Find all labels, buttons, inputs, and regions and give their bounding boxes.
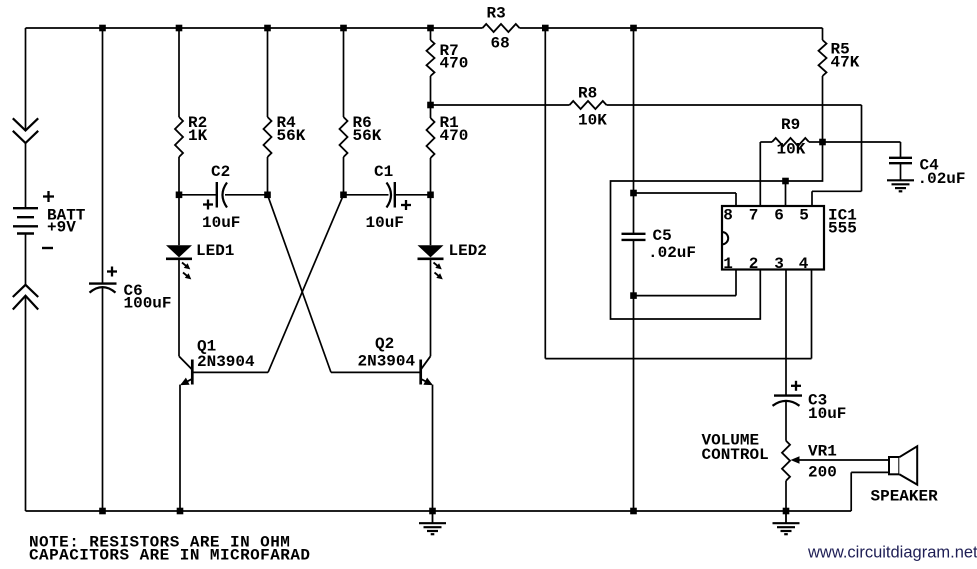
- pin 8 number: [723, 207, 733, 225]
- wire battery column upper: [25, 28, 27, 131]
- wire pin 1 connection: [634, 269, 737, 296]
- wire pin 6 riser: [785, 181, 787, 207]
- svg-text:1K: 1K: [188, 127, 208, 145]
- label Q2: [358, 335, 416, 371]
- capacitor C6: [89, 284, 117, 293]
- capacitor C4: [889, 158, 912, 163]
- capacitor C5: [622, 234, 646, 240]
- svg-text:2N3904: 2N3904: [358, 353, 416, 371]
- LED2 light arrows: [434, 263, 443, 280]
- label battery minus: [42, 247, 53, 249]
- svg-text:10uF: 10uF: [808, 405, 846, 423]
- label C2 value: [202, 214, 240, 232]
- node R6 top: [340, 25, 347, 32]
- pin 2 number: [749, 255, 759, 273]
- node pin 6 junction: [782, 178, 789, 185]
- node C6 ground: [99, 508, 106, 515]
- label R3 value: [487, 5, 510, 53]
- svg-text:CAPACITORS ARE IN MICROFARAD: CAPACITORS ARE IN MICROFARAD: [29, 547, 310, 565]
- node R4 top: [264, 25, 271, 32]
- wire LED2 anode: [430, 195, 432, 245]
- svg-text:10K: 10K: [777, 141, 806, 159]
- svg-text:6: 6: [774, 207, 784, 225]
- label BATT +9V: [47, 206, 86, 236]
- label C2: [211, 163, 230, 181]
- svg-text:5: 5: [799, 207, 809, 225]
- svg-text:2N3904: 2N3904: [197, 353, 255, 371]
- resistor R7: [427, 40, 435, 76]
- wire C6 lower: [102, 288, 104, 511]
- wire LED1 cathode to Q1 collector: [178, 259, 180, 356]
- node R2 top: [176, 25, 183, 32]
- wire cross-coupling C1 left to Q1 base: [268, 195, 344, 373]
- node C1 left / R6: [340, 192, 347, 199]
- wire R5 top lead: [822, 28, 824, 40]
- label IC1 555: [828, 207, 857, 238]
- svg-text:C5: C5: [653, 227, 672, 245]
- wire Q1 base: [192, 371, 268, 373]
- wire R2 top lead: [178, 28, 180, 117]
- wire C2 left lead: [179, 194, 216, 196]
- node VR1 ground: [783, 508, 790, 515]
- svg-text:C1: C1: [374, 163, 393, 181]
- node R9 R5 C4 junction: [819, 139, 826, 146]
- note text: [29, 534, 310, 565]
- node Q2 emitter ground: [429, 508, 436, 515]
- transistor Q1: [179, 356, 192, 385]
- svg-text:56K: 56K: [353, 127, 382, 145]
- wire Q2 base: [331, 371, 421, 373]
- label Q1: [197, 338, 255, 372]
- wire R2 to C2: [178, 157, 180, 195]
- label C3 plus: [791, 381, 801, 391]
- svg-text:47K: 47K: [831, 54, 860, 72]
- svg-text:3: 3: [774, 255, 784, 273]
- label C2 plus: [203, 200, 213, 210]
- svg-text:10uF: 10uF: [366, 214, 404, 232]
- watermark www.circuitdiagram.net: [807, 544, 977, 562]
- wire LED1 anode: [178, 195, 180, 245]
- svg-text:www.circuitdiagram.net: www.circuitdiagram.net: [807, 544, 977, 562]
- svg-text:200: 200: [808, 464, 837, 482]
- node C6 top: [99, 25, 106, 32]
- speaker SPEAKER: [889, 446, 917, 484]
- wire top +9V rail: [26, 27, 823, 29]
- op-amp IC1 555 body: [722, 206, 824, 270]
- wire battery column lower: [25, 296, 27, 511]
- label R9 value: [777, 116, 806, 159]
- wire pin 2 loop: [611, 142, 823, 319]
- wire battery bottom lead: [25, 234, 27, 285]
- wire R8 left: [431, 104, 570, 106]
- svg-text:56K: 56K: [277, 127, 306, 145]
- pin 1 number: [723, 255, 733, 273]
- svg-text:2: 2: [749, 255, 759, 273]
- wire C4 to ground: [900, 163, 902, 180]
- capacitor C3: [773, 396, 803, 406]
- diode LED2: [418, 245, 444, 259]
- pin 4 number: [799, 255, 809, 273]
- node Q1 collector net / C2 left: [176, 192, 183, 199]
- transistor Q2: [421, 356, 433, 385]
- battery feed arrows lower: [13, 285, 38, 310]
- label C3 value: [808, 392, 846, 424]
- wire VR1 to ground: [785, 481, 787, 511]
- wire R6 bottom lead: [343, 157, 345, 195]
- label R2 value: [188, 114, 208, 145]
- wire C2 right lead: [225, 194, 268, 196]
- diode LED1: [166, 245, 192, 259]
- wire R1 top lead: [430, 105, 432, 118]
- wire battery top lead: [25, 143, 27, 208]
- battery BATT +9V: [13, 208, 38, 233]
- label LED1: [196, 242, 234, 260]
- wire C1 right lead: [396, 194, 431, 196]
- node R7 R1 R8 junction: [427, 102, 434, 109]
- label VOLUME CONTROL: [702, 432, 769, 465]
- svg-text:1: 1: [723, 255, 733, 273]
- svg-text:555: 555: [828, 220, 857, 238]
- label SPEAKER: [871, 488, 939, 506]
- svg-text:R3: R3: [487, 5, 506, 23]
- label R6 value: [353, 114, 382, 145]
- wire pin 3 down: [785, 269, 787, 396]
- label VR1 value: [808, 443, 837, 482]
- label C6 value: [124, 282, 172, 313]
- svg-text:10uF: 10uF: [202, 214, 240, 232]
- node R7 top: [427, 25, 434, 32]
- capacitor C2: [217, 182, 227, 208]
- svg-text:Q2: Q2: [375, 335, 394, 353]
- svg-text:+9V: +9V: [47, 219, 76, 237]
- wire C6 upper: [102, 28, 104, 284]
- resistor R5: [819, 40, 827, 76]
- svg-text:R9: R9: [781, 116, 800, 134]
- wire R5 bottom lead: [822, 76, 824, 142]
- svg-text:10K: 10K: [578, 112, 607, 130]
- pin 3 number: [774, 255, 784, 273]
- node pin 8 branch: [630, 190, 637, 197]
- LED1 light arrows: [182, 263, 191, 280]
- node pin 1 branch: [630, 292, 637, 299]
- node Q1 emitter ground: [177, 508, 184, 515]
- resistor R6: [340, 117, 348, 157]
- label C5 value: [648, 227, 696, 262]
- resistor R8: [570, 101, 607, 109]
- svg-text:LED2: LED2: [449, 242, 487, 260]
- svg-text:470: 470: [440, 127, 469, 145]
- ground at VR1: [773, 511, 800, 534]
- node C5 column top: [630, 25, 637, 32]
- svg-text:.02uF: .02uF: [648, 244, 696, 262]
- label R5 value: [831, 41, 860, 72]
- label C1 plus: [401, 200, 411, 210]
- label C1 value: [366, 214, 404, 232]
- label C4 value: [918, 157, 966, 189]
- svg-text:R8: R8: [578, 85, 597, 103]
- wire R9 left lead: [760, 141, 772, 143]
- svg-text:8: 8: [723, 207, 733, 225]
- resistor R2: [175, 117, 183, 157]
- wire C5 column upper: [633, 28, 635, 234]
- wire speaker return to rail: [851, 472, 889, 511]
- node C2 right / R4: [264, 192, 271, 199]
- wire cross-coupling C2 right to Q2 base: [268, 195, 332, 373]
- node C5 column ground: [630, 508, 637, 515]
- pin 5 number: [799, 207, 809, 225]
- ground under Q2: [419, 511, 446, 534]
- svg-text:VR1: VR1: [808, 443, 837, 461]
- wire C4 lead: [823, 142, 901, 158]
- battery feed arrows upper: [13, 118, 38, 143]
- wire R4 bottom lead: [267, 157, 269, 195]
- potentiometer VR1: [782, 441, 790, 481]
- svg-text:7: 7: [749, 207, 759, 225]
- wire Q2 emitter to ground: [432, 385, 434, 511]
- svg-text:100uF: 100uF: [124, 295, 172, 313]
- wire C3 to VR1: [785, 401, 787, 441]
- ground at C4: [887, 180, 914, 191]
- label C6 plus: [107, 267, 117, 277]
- svg-text:CONTROL: CONTROL: [702, 446, 769, 464]
- wire R4 top lead: [267, 28, 269, 117]
- wire C1 left lead: [344, 194, 389, 196]
- node C1 right / R1 / LED2: [427, 192, 434, 199]
- svg-text:68: 68: [491, 35, 510, 53]
- svg-text:C2: C2: [211, 163, 230, 181]
- label C1: [374, 163, 393, 181]
- wire R1 bottom lead: [430, 158, 432, 195]
- label R8 value: [578, 85, 607, 130]
- capacitor C1: [387, 182, 395, 208]
- wire R7 bottom lead: [430, 76, 432, 105]
- pin 6 number: [774, 207, 784, 225]
- wire V+ down to pin 4: [545, 28, 811, 359]
- resistor R4: [264, 117, 272, 157]
- wire R9 right lead: [809, 141, 823, 143]
- node V+ branch pin4: [542, 25, 549, 32]
- wire R7 top lead: [430, 28, 432, 40]
- label LED2: [449, 242, 487, 260]
- pin 7 number: [749, 207, 759, 225]
- label battery plus: [43, 191, 54, 202]
- label R7 value: [440, 42, 469, 73]
- wire pin 7 riser: [759, 142, 761, 207]
- wire R6 top lead: [343, 28, 345, 117]
- wire pin 8 connection: [634, 193, 737, 207]
- wire bottom ground rail: [26, 510, 852, 512]
- svg-text:470: 470: [440, 55, 469, 73]
- svg-text:LED1: LED1: [196, 242, 234, 260]
- resistor R3: [483, 24, 520, 32]
- wire C5 column lower: [633, 240, 635, 511]
- VR1 wiper arrow: [791, 456, 890, 464]
- wire R8 right to pin 5: [607, 105, 862, 207]
- wire Q1 emitter to ground rail: [179, 385, 181, 511]
- svg-text:SPEAKER: SPEAKER: [871, 488, 939, 506]
- resistor R1: [427, 118, 435, 158]
- resistor R9: [772, 138, 809, 146]
- label R4 value: [277, 114, 306, 145]
- svg-text:.02uF: .02uF: [918, 170, 966, 188]
- wire LED2 cathode to Q2 collector: [430, 259, 432, 356]
- label R1 value: [440, 114, 469, 145]
- svg-text:4: 4: [799, 255, 809, 273]
